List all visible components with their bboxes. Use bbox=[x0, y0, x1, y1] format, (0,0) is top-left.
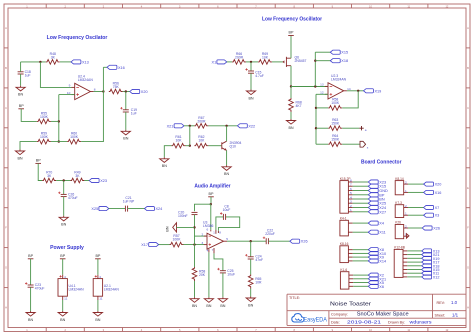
junction base node bbox=[189, 145, 191, 147]
wire node to op-amp pin 9 bbox=[40, 62, 71, 88]
wire U3 output bbox=[227, 240, 266, 242]
junction output node U2.4 bbox=[102, 90, 104, 92]
wire R58b to ground bbox=[194, 281, 196, 297]
wire C26 to ground bbox=[63, 197, 65, 216]
wire X1 to R66 bbox=[227, 61, 232, 63]
title block bbox=[287, 294, 466, 325]
svg-text:11: 11 bbox=[64, 297, 67, 301]
svg-text:X23: X23 bbox=[100, 179, 107, 183]
wire rail to pin 2 bbox=[195, 235, 208, 237]
wire C25 to ground bbox=[222, 273, 224, 297]
svg-text:1: 1 bbox=[213, 231, 215, 235]
connector K12-8B bbox=[394, 246, 407, 278]
net port X13 (K12-8B) bbox=[422, 249, 440, 254]
wire C21 to X24 bbox=[128, 208, 145, 210]
svg-text:H: H bbox=[5, 306, 7, 310]
junction R63 left bbox=[315, 127, 317, 129]
svg-text:100nF: 100nF bbox=[178, 214, 188, 218]
junction Q6 source node bbox=[290, 85, 292, 87]
wire pin 4 to ground bbox=[208, 252, 210, 297]
net port X25 bbox=[91, 207, 108, 212]
resistor R49 bbox=[70, 171, 84, 183]
net port X27 bbox=[368, 210, 386, 215]
svg-text:C: C bbox=[467, 106, 469, 110]
ground BN under C15 bbox=[246, 90, 255, 101]
svg-text:100K: 100K bbox=[40, 115, 49, 119]
junction X21 node bbox=[189, 125, 191, 127]
wire BP down bbox=[210, 197, 212, 204]
net port X23 bbox=[368, 180, 386, 185]
resistor R67 bbox=[194, 116, 208, 128]
net port X18 bbox=[330, 59, 348, 64]
svg-text:BN: BN bbox=[60, 318, 65, 322]
net port X22 bbox=[237, 124, 255, 129]
svg-text:TITLE:: TITLE: bbox=[289, 296, 300, 300]
capacitor C25 bbox=[217, 268, 235, 277]
net port X3 bbox=[424, 213, 440, 218]
svg-text:BN: BN bbox=[248, 303, 253, 307]
wire K1-6 pin 2 bbox=[353, 278, 368, 280]
wire op-amp U2.4 output bbox=[94, 91, 104, 93]
connector K26 bbox=[395, 221, 408, 239]
op-amp U3 LM386 bbox=[201, 221, 228, 254]
wire K12-8B pin 4 bbox=[407, 261, 421, 263]
wire R61 to node bbox=[186, 145, 190, 147]
wire K1-6 pin 1 bbox=[353, 274, 368, 276]
svg-text:Drawn By:: Drawn By: bbox=[388, 320, 405, 324]
wire K8-16 pin 4 bbox=[353, 260, 369, 262]
wire C18 to R48 bbox=[21, 61, 46, 63]
svg-text:Company:: Company: bbox=[331, 312, 348, 316]
wire to port X15 bbox=[315, 51, 330, 53]
power flag BP (R55) bbox=[18, 104, 24, 109]
svg-text:X1: X1 bbox=[212, 60, 217, 64]
resistor R58 bbox=[328, 97, 342, 110]
resistor R68 bbox=[289, 98, 302, 112]
ground BN pin 4 bbox=[204, 297, 213, 308]
resistor R63 bbox=[328, 118, 342, 131]
wire BP to U4.1 bbox=[62, 259, 64, 275]
junction output node bbox=[250, 240, 252, 242]
junction node R48 input bbox=[39, 61, 41, 63]
svg-text:G: G bbox=[467, 266, 469, 270]
net port X24 bbox=[145, 207, 163, 212]
ground BN under Q10 bbox=[222, 165, 231, 176]
connector K4-1 bbox=[340, 217, 353, 236]
wire K1-6 pin 4 bbox=[353, 285, 368, 287]
svg-text:3K: 3K bbox=[47, 174, 52, 178]
net port X1 bbox=[212, 60, 227, 64]
wire Q6 drain to BP bbox=[290, 36, 292, 59]
svg-text:X15: X15 bbox=[341, 51, 348, 55]
svg-text:K26: K26 bbox=[395, 221, 401, 225]
wire K15-2P pin 2 bbox=[353, 207, 369, 209]
wire Q10 emitter down bbox=[226, 150, 228, 165]
wire vertical feedback rail bbox=[58, 95, 60, 142]
wire R57 to pin 3 bbox=[184, 244, 205, 246]
svg-text:C: C bbox=[5, 106, 7, 110]
wire K8-16 pin 1 bbox=[353, 249, 369, 251]
svg-text:10R: 10R bbox=[255, 280, 262, 284]
net port X20 bbox=[424, 182, 442, 187]
svg-text:2N5457: 2N5457 bbox=[295, 59, 307, 63]
svg-text:LM324AN: LM324AN bbox=[331, 78, 347, 82]
wire rail to R64 bbox=[316, 143, 328, 145]
wire R63 right bbox=[342, 127, 359, 129]
svg-text:wduraers: wduraers bbox=[410, 319, 433, 324]
svg-text:2: 2 bbox=[201, 232, 203, 236]
junction port stub bbox=[314, 60, 316, 62]
wire down to C24 bbox=[250, 241, 252, 257]
resistor R58 bbox=[192, 267, 206, 281]
svg-text:X18: X18 bbox=[341, 59, 348, 63]
power flag BP (U2.1) bbox=[95, 254, 101, 259]
svg-text:BP: BP bbox=[95, 254, 100, 258]
svg-text:14: 14 bbox=[347, 87, 351, 91]
net port X12 (K12-8B) bbox=[422, 275, 440, 280]
junction U2.3 output bbox=[357, 90, 359, 92]
svg-text:X21: X21 bbox=[167, 124, 174, 128]
ground BN under R61 bbox=[160, 157, 169, 168]
transistor Q10 2N3904 bbox=[222, 141, 242, 150]
wire U2.1 to ground bbox=[97, 300, 99, 311]
wire R62 to Q10 base bbox=[208, 145, 221, 147]
net flag node A (small plus marker) bbox=[359, 126, 367, 132]
svg-text:100K: 100K bbox=[331, 101, 340, 105]
wire K15-2P pin 1 bbox=[353, 211, 369, 213]
svg-text:8: 8 bbox=[94, 88, 96, 92]
svg-text:9: 9 bbox=[69, 84, 71, 88]
net port X20 bbox=[130, 89, 148, 94]
svg-text:E: E bbox=[467, 186, 469, 190]
svg-text:B: B bbox=[5, 66, 7, 70]
ground BN under U4.1 bbox=[58, 311, 67, 322]
svg-text:4: 4 bbox=[64, 275, 66, 279]
wire C15 to ground bbox=[250, 73, 252, 89]
capacitor C21 bbox=[123, 196, 135, 211]
net port X21 bbox=[167, 124, 184, 129]
resistor R62 bbox=[194, 135, 208, 148]
svg-text:150K: 150K bbox=[331, 137, 340, 141]
svg-text:A: A bbox=[5, 26, 7, 30]
svg-text:3K: 3K bbox=[75, 174, 80, 178]
svg-text:E: E bbox=[5, 186, 7, 190]
svg-text:BN: BN bbox=[18, 93, 23, 97]
connector K7-3 bbox=[395, 201, 408, 218]
power flag BP (U3) bbox=[208, 192, 214, 197]
wire R69 to Q6 gate bbox=[272, 61, 284, 63]
svg-text:470uF: 470uF bbox=[35, 287, 45, 291]
resistor R57 bbox=[170, 234, 184, 247]
wire to op-amp pin 10 bbox=[59, 94, 75, 96]
capacitor C20 bbox=[178, 211, 198, 218]
svg-text:G: G bbox=[5, 266, 7, 270]
svg-text:2: 2 bbox=[405, 181, 407, 185]
svg-text:K8-14: K8-14 bbox=[395, 177, 404, 181]
svg-text:5: 5 bbox=[226, 237, 228, 241]
ground marker K26 pin 1 bbox=[406, 234, 409, 239]
wire rail to R63 bbox=[316, 127, 328, 129]
net port X10 bbox=[368, 251, 386, 256]
wire K8-14 pin 1 bbox=[408, 191, 424, 193]
svg-text:BN: BN bbox=[95, 318, 100, 322]
svg-text:3: 3 bbox=[201, 241, 203, 245]
wire node down bbox=[189, 126, 191, 146]
svg-text:A: A bbox=[467, 26, 469, 30]
power flag BP (U4.1) bbox=[60, 254, 66, 259]
wire K12-8B pin 6 bbox=[407, 269, 421, 271]
svg-text:Audio Amplifier: Audio Amplifier bbox=[194, 184, 231, 190]
junction ground node bbox=[193, 226, 195, 228]
power flag BP (C23) bbox=[28, 254, 34, 259]
svg-text:X16: X16 bbox=[435, 191, 442, 195]
ground BN under C19 bbox=[121, 130, 130, 141]
svg-text:10K: 10K bbox=[175, 139, 182, 143]
net port X19 bbox=[364, 89, 382, 94]
ground BN under C26 bbox=[59, 216, 68, 227]
net port X11 bbox=[368, 230, 385, 235]
junction C26 node bbox=[63, 179, 65, 181]
wire U4.1 to ground bbox=[62, 300, 64, 311]
svg-text:200R: 200R bbox=[235, 55, 244, 59]
ground BN under R58 bbox=[190, 297, 199, 308]
junction BP node bbox=[210, 203, 212, 205]
transistor Q6 2N5457 (JFET) bbox=[282, 56, 306, 67]
svg-text:LM324AN: LM324AN bbox=[69, 287, 85, 291]
wire to C20 bbox=[195, 204, 211, 211]
wire X21 to R67 bbox=[184, 125, 194, 127]
svg-text:LM324AN: LM324AN bbox=[104, 287, 120, 291]
net port X2 bbox=[368, 273, 384, 277]
svg-text:BN: BN bbox=[166, 226, 170, 231]
wire X25 to C21 bbox=[109, 208, 126, 210]
resistor R61 bbox=[172, 135, 186, 148]
svg-text:220uF: 220uF bbox=[265, 232, 275, 236]
net port GND bbox=[368, 188, 388, 193]
net port X21 bbox=[368, 277, 386, 282]
svg-text:X26: X26 bbox=[433, 226, 440, 230]
svg-text:47nF: 47nF bbox=[255, 258, 263, 262]
svg-text:20K: 20K bbox=[199, 273, 206, 277]
wire R64 right bbox=[342, 143, 360, 145]
junction rail/pin13 bbox=[314, 85, 316, 87]
wire vertical to ports bbox=[314, 52, 316, 86]
wire down to C19 bbox=[125, 92, 127, 110]
junction node X20/C19 bbox=[125, 90, 127, 92]
net port X18 (K12-8B) bbox=[422, 264, 440, 269]
ground BN under R68 bbox=[286, 119, 295, 130]
wire K1-6 pin 3 bbox=[353, 282, 368, 284]
wire K12-8B pin 1 bbox=[407, 250, 421, 252]
wire K12-8B pin 3 bbox=[407, 257, 421, 259]
capacitor C26 bbox=[58, 192, 78, 200]
svg-text:Date:: Date: bbox=[331, 320, 340, 324]
svg-text:4K7: 4K7 bbox=[296, 104, 302, 108]
wire K7-3 pin 2 bbox=[408, 207, 424, 209]
svg-text:BN: BN bbox=[192, 304, 197, 308]
svg-text:H: H bbox=[467, 306, 469, 310]
wire R48 to X13 bbox=[60, 61, 71, 63]
svg-text:D: D bbox=[467, 146, 469, 150]
wire K15-2P pin 4 bbox=[353, 198, 369, 200]
net port X13 bbox=[71, 60, 89, 64]
net port X4 bbox=[368, 221, 384, 226]
connector K8-14 bbox=[395, 177, 408, 195]
svg-text:4: 4 bbox=[99, 275, 101, 279]
wire C8 to pin 8 bbox=[218, 217, 239, 231]
svg-text:X7: X7 bbox=[435, 206, 440, 210]
wire C20 down rail bbox=[194, 215, 196, 245]
net port X15 bbox=[330, 50, 348, 55]
wire rail to R58 bbox=[316, 107, 328, 109]
resistor R56 bbox=[109, 82, 123, 94]
wire C18 to ground bbox=[20, 74, 22, 86]
connector K8-16 bbox=[340, 242, 353, 263]
svg-text:BN: BN bbox=[206, 304, 211, 308]
svg-text:BP: BP bbox=[19, 104, 24, 108]
svg-text:B: B bbox=[467, 66, 469, 70]
power flag BP (X23 row) bbox=[35, 159, 41, 164]
svg-text:1uF NP: 1uF NP bbox=[123, 200, 135, 204]
svg-text:X20: X20 bbox=[141, 90, 148, 94]
op-amp power part U2.1 LM324AN bbox=[93, 275, 119, 301]
wire K15-2P pin 8 bbox=[353, 181, 369, 183]
net port X17 (K12-8B) bbox=[422, 260, 440, 264]
resistor R70 bbox=[42, 171, 56, 183]
svg-text:10K: 10K bbox=[198, 139, 205, 143]
ground BN under C18 bbox=[16, 86, 25, 97]
resistor R65 bbox=[248, 275, 262, 289]
junction collector node bbox=[225, 125, 227, 127]
svg-text:BP: BP bbox=[28, 254, 33, 258]
svg-text:BN: BN bbox=[28, 318, 33, 322]
wire K15-2P pin 3 bbox=[353, 202, 369, 204]
wire R67 to X22 bbox=[208, 125, 237, 127]
ground BN lower left bbox=[15, 150, 24, 161]
wire rail to R58b bbox=[194, 245, 196, 267]
net port X7 bbox=[424, 205, 440, 210]
junction R55 node bbox=[58, 120, 60, 122]
svg-text:LM324AN: LM324AN bbox=[78, 78, 94, 82]
resistor R69 bbox=[258, 52, 272, 64]
net port X15 bbox=[368, 184, 386, 189]
svg-text:13: 13 bbox=[320, 83, 324, 87]
svg-text:X14: X14 bbox=[379, 259, 386, 263]
svg-text:Noise Toaster: Noise Toaster bbox=[330, 302, 371, 308]
EasyEDA logo bbox=[292, 314, 328, 324]
svg-text:1: 1 bbox=[350, 208, 352, 212]
ground BN under U2.1 bbox=[93, 311, 102, 322]
svg-text:a: a bbox=[365, 128, 367, 132]
svg-text:X6: X6 bbox=[379, 285, 384, 289]
wire pin 7 to C25 bbox=[214, 253, 223, 270]
svg-text:K7-3: K7-3 bbox=[395, 201, 402, 205]
op-amp U2.4 LM324AN bbox=[67, 75, 96, 100]
svg-text:1uF: 1uF bbox=[25, 73, 31, 77]
wire Q10 collector up bbox=[226, 126, 228, 141]
svg-text:100K: 100K bbox=[40, 135, 49, 139]
op-amp U2.3 LM324AN bbox=[320, 74, 351, 99]
svg-text:SnoCo Maker Space: SnoCo Maker Space bbox=[357, 312, 409, 318]
svg-text:2: 2 bbox=[405, 224, 407, 228]
wire pin 12 stub bbox=[316, 93, 328, 95]
wire K4-1 pin 2 bbox=[353, 222, 369, 224]
svg-text:K12-8B: K12-8B bbox=[394, 246, 405, 250]
svg-text:Board Connector: Board Connector bbox=[361, 159, 402, 165]
svg-text:11: 11 bbox=[99, 297, 102, 301]
junction pin3 node bbox=[193, 243, 195, 245]
svg-text:Power Supply: Power Supply bbox=[50, 245, 84, 251]
svg-text:200R: 200R bbox=[197, 119, 206, 123]
net port X9 bbox=[368, 255, 384, 259]
svg-text:BN: BN bbox=[248, 96, 253, 100]
wire down to C15 bbox=[250, 62, 252, 71]
wire K15-2P pin 7 bbox=[353, 185, 369, 187]
resistor R60 bbox=[67, 132, 81, 144]
svg-text:10uF: 10uF bbox=[223, 208, 231, 212]
svg-text:3K: 3K bbox=[51, 55, 56, 59]
svg-text:1/1: 1/1 bbox=[452, 313, 459, 318]
wire K7-3 pin 1 bbox=[408, 214, 424, 216]
wire BP to R70 bbox=[38, 163, 42, 180]
wire source node to U2.3 pin 13 bbox=[291, 86, 328, 88]
svg-text:X16: X16 bbox=[118, 66, 125, 70]
wire K15-2P pin 5 bbox=[353, 194, 369, 196]
wire K8-16 pin 2 bbox=[353, 252, 369, 254]
wire R56 to X20 bbox=[123, 91, 130, 93]
wire BP to U2.1 bbox=[97, 259, 99, 275]
power flag BP (Q6) bbox=[288, 31, 294, 36]
svg-text:1: 1 bbox=[405, 212, 407, 216]
svg-text:X26: X26 bbox=[301, 240, 308, 244]
wire BP to R55 bbox=[21, 109, 37, 122]
svg-text:Q10: Q10 bbox=[230, 145, 237, 149]
svg-text:EasyEDA: EasyEDA bbox=[304, 317, 328, 324]
wire R65 to ground bbox=[250, 289, 252, 297]
net port X16 bbox=[424, 190, 442, 195]
capacitor C23 bbox=[25, 282, 44, 290]
svg-text:75K: 75K bbox=[113, 85, 120, 89]
wire R68 to ground bbox=[290, 112, 292, 119]
wire C19 to ground bbox=[125, 112, 127, 130]
resistor R64 bbox=[328, 134, 342, 147]
svg-text:X25: X25 bbox=[91, 207, 98, 211]
op-amp power part U4.1 LM324AN bbox=[58, 275, 84, 301]
wire K12-8B pin 8 bbox=[407, 276, 421, 278]
wire to port X18 bbox=[315, 60, 330, 62]
wire R49 to X23 bbox=[84, 180, 89, 182]
svg-text:Low Frequency Oscilator: Low Frequency Oscilator bbox=[47, 35, 109, 41]
wire K15-2P pin 6 bbox=[353, 190, 369, 192]
svg-text:BN: BN bbox=[123, 137, 128, 141]
svg-text:4: 4 bbox=[207, 248, 209, 252]
wire R66 to R69 bbox=[246, 61, 258, 63]
resistor R48 bbox=[46, 52, 60, 64]
svg-text:1uF: 1uF bbox=[131, 111, 137, 115]
wire R55 to node bbox=[51, 120, 59, 122]
net port X11 (K12-8B) bbox=[422, 271, 439, 275]
wire R61 to ground bbox=[164, 146, 171, 158]
svg-text:BN: BN bbox=[162, 164, 167, 168]
wire R70 to R49 bbox=[56, 180, 70, 182]
svg-text:7: 7 bbox=[212, 248, 214, 252]
connector K15-2P bbox=[340, 177, 353, 213]
wire ground to R59 bbox=[20, 142, 37, 150]
svg-text:8: 8 bbox=[219, 231, 221, 235]
resistor R66 bbox=[232, 52, 246, 64]
wire C23 to ground bbox=[30, 287, 32, 311]
net port X21 (K12-8B) bbox=[422, 253, 440, 257]
